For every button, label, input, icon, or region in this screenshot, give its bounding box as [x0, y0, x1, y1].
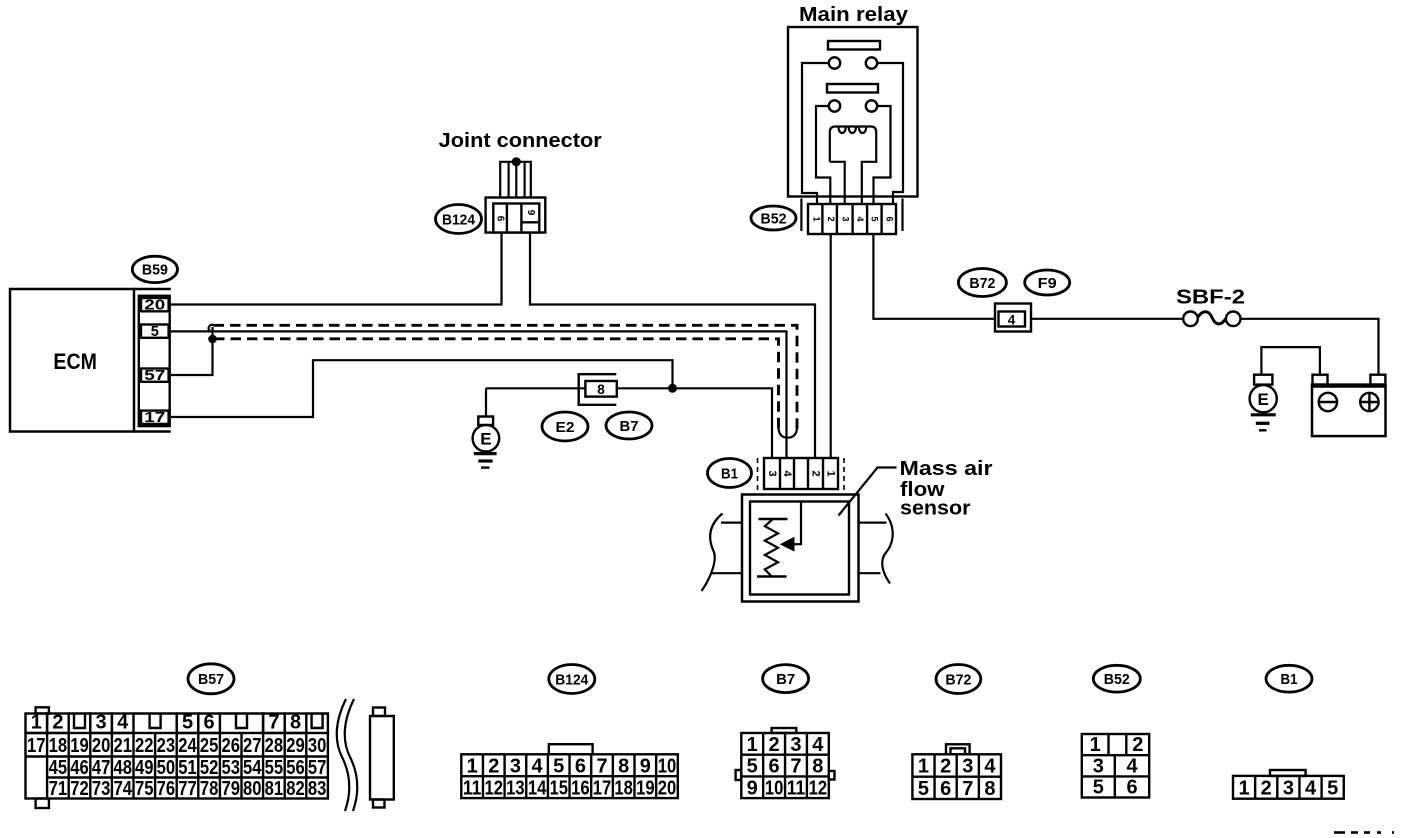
- svg-text:18: 18: [49, 735, 68, 757]
- svg-text:2: 2: [810, 470, 822, 476]
- svg-text:4: 4: [812, 734, 824, 756]
- svg-text:6: 6: [940, 778, 951, 800]
- svg-text:3: 3: [96, 712, 107, 734]
- relay upper contact terminals: [829, 57, 877, 68]
- svg-text:8: 8: [984, 778, 995, 800]
- svg-text:1: 1: [811, 216, 821, 221]
- svg-text:2: 2: [769, 734, 780, 756]
- svg-text:9: 9: [640, 755, 651, 777]
- svg-text:76: 76: [157, 778, 176, 800]
- svg-text:8: 8: [290, 712, 301, 734]
- svg-text:18: 18: [614, 777, 633, 799]
- wiper arrow: [780, 502, 801, 552]
- svg-text:3: 3: [1283, 778, 1294, 800]
- svg-text:22: 22: [135, 735, 154, 757]
- svg-text:B72: B72: [969, 275, 995, 292]
- ground E2 symbol: [473, 388, 500, 467]
- svg-text:20: 20: [144, 297, 165, 313]
- ECM pin 5: [141, 324, 169, 340]
- svg-text:71: 71: [49, 778, 68, 800]
- svg-text:14: 14: [528, 777, 547, 799]
- oval label B72 (bottom): [936, 665, 981, 694]
- shield drain wire to ECM pin 57: [170, 327, 213, 375]
- svg-text:82: 82: [286, 778, 305, 800]
- svg-text:8: 8: [812, 756, 823, 778]
- svg-text:78: 78: [200, 778, 219, 800]
- svg-text:48: 48: [113, 757, 132, 779]
- svg-text:3: 3: [962, 756, 973, 778]
- svg-text:26: 26: [221, 735, 240, 757]
- wire: ground E2 to MAF sensor B1 pin 1: [486, 388, 772, 458]
- svg-text:4: 4: [1126, 755, 1138, 777]
- oval label B7 (bottom): [763, 665, 809, 693]
- svg-text:7: 7: [962, 778, 973, 800]
- svg-text:F9: F9: [1038, 275, 1057, 292]
- Mass air flow sensor outer box: [742, 495, 859, 602]
- shield (dashed) lower run: [214, 339, 779, 429]
- relay flange sides: [801, 199, 902, 232]
- oval label B7 (top): [606, 412, 652, 439]
- svg-text:6: 6: [885, 216, 895, 221]
- oval label E2: [542, 412, 588, 441]
- svg-text:5: 5: [182, 712, 193, 734]
- wire: ECM pin 5 to MAF sensor B1 pin 2 (shielded core): [169, 331, 787, 458]
- svg-text:SBF-2: SBF-2: [1176, 286, 1245, 309]
- oval label B124 (top): [436, 205, 482, 234]
- relay Main relay outer box: [788, 27, 918, 197]
- shield end hook: [779, 428, 798, 438]
- svg-text:9: 9: [525, 210, 536, 216]
- svg-text:53: 53: [221, 757, 240, 779]
- ECM box: [10, 289, 171, 432]
- svg-text:5: 5: [747, 756, 758, 778]
- svg-text:13: 13: [506, 777, 525, 799]
- svg-text:6: 6: [1126, 777, 1137, 799]
- svg-text:B7: B7: [776, 671, 795, 688]
- wire: connector 4 to fuse SBF-2: [1031, 318, 1183, 320]
- svg-text:B1: B1: [1281, 671, 1298, 688]
- svg-text:55: 55: [265, 757, 284, 779]
- wire: ECM pin 17 to junction: [170, 360, 673, 417]
- svg-text:72: 72: [70, 778, 89, 800]
- svg-text:81: 81: [265, 778, 284, 800]
- junction dot on jumper bus: [512, 157, 521, 166]
- svg-text:21: 21: [113, 735, 132, 757]
- svg-text:B72: B72: [945, 671, 971, 688]
- svg-text:50: 50: [157, 757, 176, 779]
- svg-text:B57: B57: [198, 671, 224, 688]
- connector B1 (MAF sensor): [758, 458, 845, 493]
- svg-text:10: 10: [765, 777, 784, 799]
- svg-text:4: 4: [781, 470, 793, 477]
- svg-text:57: 57: [308, 757, 327, 779]
- connector 8 (E2/B7 inline): [579, 374, 617, 405]
- oval label F9: [1025, 270, 1070, 295]
- wire: ground E to battery negative: [1261, 347, 1320, 375]
- oval label B57 (bottom): [188, 664, 234, 694]
- connector B72 pin view: [912, 744, 1001, 800]
- wire: fuse to battery positive: [1241, 319, 1379, 375]
- relay conductor: lower-right contact to pin: [874, 106, 891, 205]
- relay upper contact bar: [828, 41, 880, 50]
- svg-text:5: 5: [870, 216, 880, 221]
- svg-text:7: 7: [268, 712, 279, 734]
- svg-text:28: 28: [265, 735, 284, 757]
- svg-text:5: 5: [553, 755, 564, 777]
- ECM pin 17: [141, 410, 169, 426]
- svg-text:6: 6: [575, 755, 586, 777]
- svg-text:2: 2: [488, 755, 499, 777]
- oval label B59: [132, 256, 177, 282]
- svg-text:2: 2: [52, 712, 63, 734]
- svg-text:B7: B7: [620, 418, 639, 435]
- svg-text:3: 3: [790, 734, 801, 756]
- connector B7 pin view: [736, 728, 835, 799]
- leader line to Mass air flow sensor: [839, 468, 897, 516]
- svg-text:3: 3: [766, 470, 778, 476]
- svg-text:1: 1: [467, 755, 478, 777]
- svg-text:1: 1: [825, 470, 837, 476]
- svg-text:74: 74: [113, 778, 132, 800]
- svg-text:83: 83: [308, 778, 327, 800]
- svg-text:16: 16: [571, 777, 590, 799]
- svg-text:45: 45: [49, 757, 68, 779]
- fuse SBF-2 (fusible link): [1183, 312, 1240, 327]
- svg-text:1: 1: [918, 756, 929, 778]
- svg-text:Joint connector: Joint connector: [439, 129, 602, 152]
- air duct right: [859, 514, 893, 584]
- svg-text:E2: E2: [556, 419, 575, 436]
- connector B124 pin view: [461, 744, 678, 799]
- svg-text:77: 77: [178, 778, 197, 800]
- svg-text:4: 4: [117, 712, 129, 734]
- svg-text:8: 8: [597, 382, 605, 397]
- oval label B1 (bottom): [1266, 665, 1312, 692]
- svg-text:5: 5: [918, 778, 929, 800]
- svg-text:3: 3: [840, 216, 850, 221]
- svg-text:17: 17: [27, 735, 46, 757]
- connector B52 pin view: [1082, 734, 1149, 799]
- svg-text:6: 6: [494, 216, 505, 222]
- svg-text:1: 1: [1239, 778, 1250, 800]
- battery: [1312, 375, 1386, 436]
- svg-text:4: 4: [1008, 312, 1016, 327]
- svg-text:25: 25: [200, 735, 219, 757]
- svg-text:9: 9: [747, 777, 758, 799]
- relay conductor: upper-left contact to pin: [802, 63, 829, 205]
- svg-text:10: 10: [658, 755, 677, 777]
- Mass air flow sensor inner box: [750, 502, 849, 595]
- svg-text:80: 80: [243, 778, 262, 800]
- oval label B52 (bottom): [1093, 665, 1140, 692]
- svg-text:E: E: [480, 429, 491, 448]
- wire: ECM pin 20 to joint connector leg 1: [170, 232, 502, 304]
- shield (dashed) upper run: [214, 325, 798, 429]
- junction dot E2/B7 node: [668, 384, 677, 393]
- svg-text:5: 5: [1327, 778, 1338, 800]
- svg-text:3: 3: [510, 755, 521, 777]
- relay lower contact bar: [827, 84, 878, 93]
- svg-text:20: 20: [658, 777, 677, 799]
- label: Mass air flow sensor: [900, 457, 993, 520]
- svg-text:B1: B1: [721, 465, 738, 482]
- relay conductor: upper-right contact to pin: [877, 63, 903, 205]
- ECM connector strip B59: [139, 296, 170, 426]
- svg-text:B52: B52: [1104, 671, 1130, 688]
- svg-text:29: 29: [286, 735, 305, 757]
- connector B72/F9 pin 4: [995, 304, 1031, 332]
- svg-text:7: 7: [596, 755, 607, 777]
- svg-text:B124: B124: [555, 671, 589, 688]
- svg-text:2: 2: [1132, 734, 1143, 756]
- svg-text:5: 5: [151, 324, 159, 340]
- svg-text:ECM: ECM: [53, 349, 97, 374]
- svg-text:19: 19: [636, 777, 655, 799]
- svg-text:56: 56: [286, 757, 305, 779]
- svg-text:E: E: [1258, 390, 1269, 409]
- svg-text:54: 54: [243, 757, 262, 779]
- svg-text:2: 2: [826, 216, 836, 221]
- svg-text:1: 1: [1090, 734, 1101, 756]
- wire: relay pin 5 to connector B72/F9: [873, 234, 995, 319]
- relay conductor: lower-left contact to pin: [816, 106, 830, 205]
- svg-text:6: 6: [769, 756, 780, 778]
- svg-text:11: 11: [463, 777, 482, 799]
- wire: joint connector leg 2 to MAF sensor B1 pin 4: [530, 232, 815, 458]
- svg-text:4: 4: [984, 756, 996, 778]
- svg-text:4: 4: [855, 216, 865, 221]
- svg-text:15: 15: [549, 777, 568, 799]
- ground E (battery side): [1250, 375, 1277, 431]
- ECM pin 20: [141, 297, 169, 313]
- svg-text:57: 57: [144, 368, 165, 384]
- svg-text:sensor: sensor: [900, 497, 971, 520]
- relay lower contact terminals: [829, 100, 877, 111]
- junction dot: drain to shield: [208, 335, 217, 344]
- svg-text:4: 4: [532, 755, 544, 777]
- svg-text:8: 8: [618, 755, 629, 777]
- svg-text:47: 47: [92, 757, 111, 779]
- svg-text:Mass air: Mass air: [900, 457, 993, 480]
- label SBF-2: [1176, 286, 1245, 309]
- connector B57 pin view: [26, 699, 394, 811]
- svg-text:17: 17: [593, 777, 612, 799]
- svg-text:51: 51: [178, 757, 197, 779]
- svg-text:24: 24: [178, 735, 197, 757]
- oval label B124 (bottom): [549, 665, 595, 694]
- svg-text:B52: B52: [761, 210, 787, 227]
- svg-text:75: 75: [135, 778, 154, 800]
- svg-text:23: 23: [157, 735, 176, 757]
- oval label B52 (top): [751, 206, 796, 230]
- joint connector jumper bus: [500, 162, 531, 204]
- connector B124 (joint connector): [486, 198, 546, 233]
- svg-text:6: 6: [204, 712, 215, 734]
- svg-text:27: 27: [243, 735, 262, 757]
- svg-text:1: 1: [747, 734, 758, 756]
- svg-text:1: 1: [31, 712, 42, 734]
- svg-text:30: 30: [308, 735, 327, 757]
- air duct left: [702, 514, 743, 592]
- svg-text:12: 12: [809, 777, 828, 799]
- svg-text:79: 79: [221, 778, 240, 800]
- connector B52 (relay socket strip): [808, 204, 896, 234]
- svg-text:11: 11: [787, 777, 806, 799]
- svg-text:49: 49: [135, 757, 154, 779]
- svg-text:4: 4: [1305, 778, 1317, 800]
- oval label B72 (top): [958, 269, 1006, 297]
- svg-text:46: 46: [70, 757, 89, 779]
- svg-text:B124: B124: [442, 211, 476, 228]
- svg-text:Main relay: Main relay: [799, 3, 909, 26]
- oval label B1 (top): [708, 459, 752, 488]
- svg-text:20: 20: [92, 735, 111, 757]
- svg-text:17: 17: [144, 410, 165, 426]
- svg-text:73: 73: [92, 778, 111, 800]
- resistor (hot wire element): [757, 519, 788, 577]
- relay coil: [830, 127, 876, 205]
- svg-text:2: 2: [1261, 778, 1272, 800]
- connector B1 pin view: [1233, 770, 1344, 800]
- svg-text:7: 7: [790, 756, 801, 778]
- svg-text:B59: B59: [142, 262, 168, 279]
- label: Joint connector: [439, 129, 602, 152]
- svg-text:19: 19: [70, 735, 89, 757]
- wire: relay pin 2 to MAF sensor B1 pin 5: [830, 234, 832, 458]
- shield start hook: [209, 325, 215, 332]
- svg-text:5: 5: [1093, 777, 1104, 799]
- corner marks (bottom right): [1334, 831, 1394, 834]
- svg-text:52: 52: [200, 757, 219, 779]
- svg-text:2: 2: [940, 756, 951, 778]
- svg-text:3: 3: [1093, 755, 1104, 777]
- svg-text:12: 12: [485, 777, 504, 799]
- ECM pin 57: [141, 368, 169, 384]
- label: Main relay: [799, 3, 909, 26]
